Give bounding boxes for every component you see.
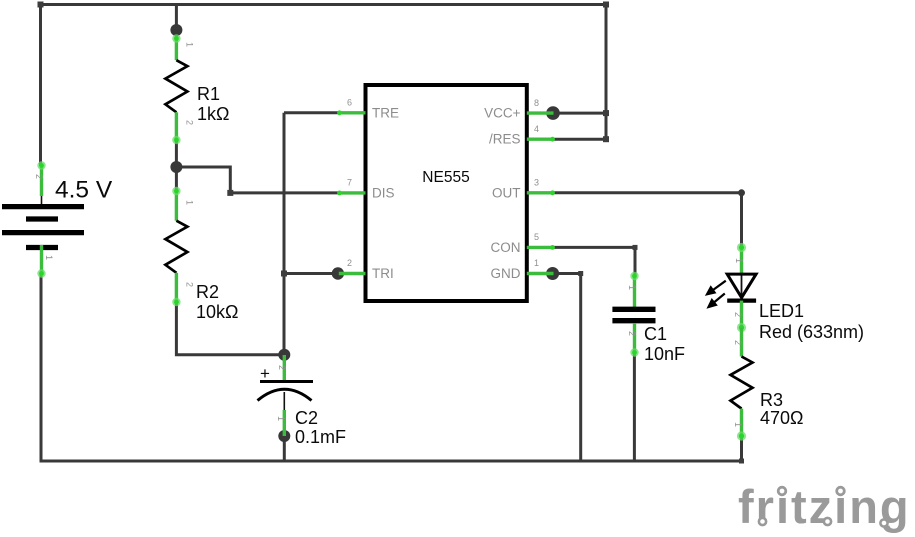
- wire C1 pin1 down to bottom rail: [633, 352, 636, 461]
- svg-text:Red (633nm): Red (633nm): [759, 322, 864, 342]
- svg-text:10kΩ: 10kΩ: [196, 302, 238, 322]
- LED1 emission arrow upper: [707, 281, 726, 295]
- C1 pin 2 leg: [633, 275, 636, 307]
- svg-text:2: 2: [347, 258, 352, 268]
- battery V1 4.5 V: [2, 161, 113, 277]
- wire node R1R2 right then down to DIS: [176, 167, 338, 193]
- svg-text:1kΩ: 1kΩ: [197, 104, 229, 124]
- junction bendpoint CON corner: [633, 245, 638, 250]
- svg-text:4.5 V: 4.5 V: [55, 177, 113, 204]
- junction node VCC pin: [546, 106, 560, 120]
- junction node R1R2: [170, 161, 182, 173]
- R1 zigzag body: [165, 60, 187, 112]
- pin 3 OUT stub: [527, 191, 554, 194]
- battery pin 1 (negative leg): [40, 245, 43, 274]
- junction node GND pin: [546, 267, 559, 280]
- wire right rail top corner down to /RES: [605, 3, 608, 139]
- svg-text:8: 8: [534, 98, 539, 108]
- wire left rail down to battery + terminal: [39, 3, 42, 166]
- wire CON pin right then down to C1 pin2: [554, 247, 636, 276]
- C2 negative plate arc: [258, 389, 312, 400]
- LED1 inner stem: [741, 274, 743, 300]
- svg-text:GND: GND: [491, 266, 521, 281]
- pin 2 TRI stub: [339, 272, 366, 275]
- svg-text:2: 2: [185, 282, 195, 287]
- wire /RES pin to right rail: [554, 138, 607, 141]
- svg-text:DIS: DIS: [372, 185, 395, 200]
- svg-text:2: 2: [733, 312, 743, 317]
- wire C2 pin1 to bottom rail: [283, 436, 286, 461]
- junction bendpoint RES right rail: [603, 136, 609, 142]
- svg-text:2: 2: [277, 365, 287, 370]
- op-amp U1 NE555 IC body: [337, 85, 555, 301]
- C2 inner stem: [283, 392, 285, 412]
- R3 zigzag body: [731, 357, 753, 409]
- LED1 pin 1 leg (anode): [740, 247, 743, 274]
- svg-text:1: 1: [185, 42, 195, 47]
- svg-text:7: 7: [347, 178, 352, 188]
- wire R1 pin2 to node R1R2: [175, 139, 178, 192]
- pin 4 /RES stub: [527, 137, 554, 140]
- R2 pin 1 leg: [175, 191, 178, 221]
- LED1 triangle: [727, 274, 756, 298]
- R2 pin 2 leg: [175, 273, 178, 303]
- svg-text:LED1: LED1: [759, 301, 804, 321]
- R2 zigzag body: [165, 221, 187, 273]
- wire TRI branch: [284, 272, 338, 275]
- wire bottom ground rail: [40, 460, 742, 463]
- R1 pin 1 leg: [175, 38, 178, 60]
- svg-text:VCC+: VCC+: [484, 106, 521, 121]
- junction bendpoint TRI tee: [281, 271, 287, 277]
- wire battery - terminal down to bottom rail: [40, 273, 43, 461]
- capacitor C2 0.1mF electrolytic: [258, 355, 347, 447]
- battery plate short: [26, 216, 58, 221]
- C1 pin 1 leg: [633, 323, 636, 353]
- junction bendpoint OUT corner: [738, 189, 745, 196]
- junction node R1 top: [170, 24, 182, 36]
- wire R3 pin1 down to bottom rail: [740, 438, 743, 461]
- R3 pin 1 leg: [740, 409, 743, 437]
- svg-text:TRE: TRE: [372, 105, 399, 120]
- junction bendpoint DIS corner: [227, 190, 233, 196]
- junction node TRI: [332, 267, 344, 279]
- battery plate long bottom: [2, 230, 84, 235]
- C2 pin 2 leg: [283, 355, 286, 381]
- svg-text:470Ω: 470Ω: [760, 408, 804, 428]
- junction bendpoint VCC right rail: [603, 110, 609, 116]
- battery pin 2 (positive leg): [40, 165, 43, 196]
- svg-text:2: 2: [733, 340, 743, 345]
- svg-text:1: 1: [44, 255, 54, 260]
- junction bendpoint R3 bottom: [739, 459, 744, 464]
- C2 positive plate: [260, 380, 313, 383]
- svg-text:4: 4: [534, 124, 539, 134]
- resistor R3 470: [731, 328, 804, 441]
- svg-text:1: 1: [534, 258, 539, 268]
- pin 8 VCC+ stub: [527, 111, 554, 114]
- pin 5 CON stub: [527, 246, 554, 249]
- C1 plate bottom: [612, 318, 655, 323]
- junction bendpoint GND corner: [578, 271, 583, 276]
- wire R2 pin1 down then right to node C2TOP: [176, 301, 284, 355]
- C2 pin 1 leg: [283, 410, 286, 436]
- svg-text:/RES: /RES: [489, 132, 521, 147]
- svg-text:R2: R2: [196, 282, 219, 302]
- svg-text:CON: CON: [491, 240, 521, 255]
- svg-text:1: 1: [185, 200, 195, 205]
- wire top rail from battery+ to VCC branch: [41, 3, 607, 6]
- junction bendpoint top-right corner: [603, 2, 609, 8]
- LED1 cathode bar: [727, 299, 756, 303]
- svg-text:3: 3: [534, 178, 539, 188]
- resistor R1 1k: [165, 34, 229, 144]
- svg-text:OUT: OUT: [492, 185, 521, 200]
- svg-text:2: 2: [185, 120, 195, 125]
- svg-text:NE555: NE555: [422, 169, 469, 186]
- battery plate long top: [2, 204, 84, 209]
- svg-text:2: 2: [34, 174, 44, 179]
- svg-text:R1: R1: [197, 84, 220, 104]
- pin 7 DIS stub: [339, 191, 366, 194]
- LED1 emission arrow lower: [709, 294, 725, 308]
- wire GND pin right then down to bottom rail: [553, 274, 581, 462]
- fritzing watermark i dot rings: [775, 483, 789, 497]
- svg-text:C2: C2: [295, 408, 318, 428]
- svg-text:5: 5: [534, 232, 539, 242]
- R1 pin 2 leg: [175, 112, 178, 140]
- wire TRE branch: [284, 111, 339, 114]
- svg-text:TRI: TRI: [372, 266, 394, 281]
- capacitor C1 10nF: [612, 272, 685, 364]
- svg-text:1: 1: [627, 285, 637, 290]
- svg-text:R3: R3: [760, 390, 783, 410]
- wire vertical TRE/TRI/C2 bus: [283, 113, 286, 355]
- svg-text:2: 2: [627, 331, 637, 336]
- junction bendpoint top-left corner: [38, 2, 44, 8]
- svg-text:C1: C1: [644, 324, 667, 344]
- wire OUT pin right then down to LED1 anode: [554, 193, 742, 248]
- LED1 Red: [707, 243, 864, 342]
- fritzing watermark terminal rings: [759, 518, 766, 525]
- wire top rail to R1 pin1: [175, 5, 178, 41]
- svg-text:10nF: 10nF: [644, 344, 685, 364]
- junction node C2 top: [278, 349, 290, 361]
- pin 1 GND stub: [527, 272, 554, 275]
- pin 6 TRE stub: [339, 111, 366, 114]
- resistor R2 10k: [165, 187, 238, 322]
- svg-text:1: 1: [733, 422, 743, 427]
- svg-text:0.1mF: 0.1mF: [295, 427, 346, 447]
- LED1 pin 2 leg (cathode): [740, 301, 743, 328]
- svg-text:1: 1: [276, 416, 286, 421]
- C1 plate top: [612, 307, 655, 312]
- junction node C2 bottom: [278, 430, 290, 442]
- battery plate short bottom: [26, 245, 58, 250]
- svg-text:6: 6: [347, 98, 352, 108]
- R3 pin 2 leg: [740, 328, 743, 357]
- svg-text:1: 1: [734, 258, 744, 263]
- wire VCC+ pin to right rail: [553, 112, 606, 115]
